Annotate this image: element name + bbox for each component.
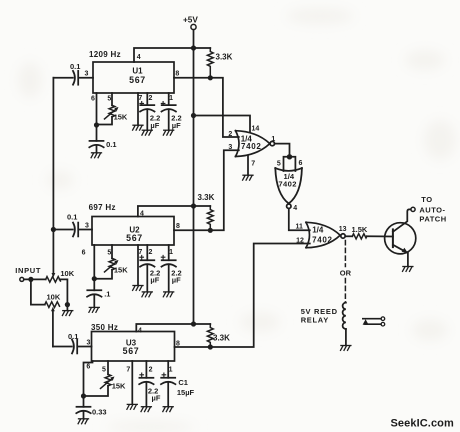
svg-text:2: 2 xyxy=(148,249,152,256)
wire trunk U1 input down to pots xyxy=(52,78,54,230)
transistor Q1 NPN xyxy=(385,209,416,266)
svg-text:2: 2 xyxy=(149,366,153,373)
svg-text:µF: µF xyxy=(172,121,181,130)
IC U2 567 xyxy=(89,203,174,245)
ground U2 pin2 cap xyxy=(142,292,152,297)
svg-text:8: 8 xyxy=(176,340,180,347)
node input junction xyxy=(28,277,33,282)
svg-text:6: 6 xyxy=(298,160,302,167)
svg-text:15K: 15K xyxy=(112,382,126,391)
node U2 pin6 junction xyxy=(92,276,97,281)
svg-text:5: 5 xyxy=(102,366,106,373)
svg-text:10K: 10K xyxy=(47,293,61,302)
wire gate1 output pin1 to gate2 inputs xyxy=(271,136,289,157)
svg-text:8: 8 xyxy=(175,70,179,77)
wire U1 pin8 row to gate input 2 xyxy=(174,78,239,137)
ground U2 pin7 xyxy=(133,286,143,291)
op-amp U4a NOR gate 1/4 7402 xyxy=(236,131,275,157)
IC U3 567 xyxy=(91,323,175,361)
wire input down to pot2 xyxy=(31,279,45,304)
ground relay coil xyxy=(341,346,351,351)
svg-text:350 Hz: 350 Hz xyxy=(91,323,118,332)
+5V supply terminal xyxy=(183,16,198,30)
op-amp U4b NOR gate 1/4 7402 (vertical) xyxy=(275,168,302,212)
wire U1 pin6 xyxy=(96,93,98,125)
capacitor 0.1 (U1 input coupling) xyxy=(70,62,80,85)
svg-text:1209 Hz: 1209 Hz xyxy=(89,50,121,59)
wire U3 pin6 xyxy=(84,361,93,396)
svg-text:0.1: 0.1 xyxy=(68,332,78,341)
wire base xyxy=(367,235,393,237)
wire U2 pin8 row to gate input 3 xyxy=(174,150,239,230)
ground U1 pin7 xyxy=(133,125,143,130)
svg-text:567: 567 xyxy=(126,233,143,243)
node rail-U3 row xyxy=(191,321,196,326)
capacitor 0.33 (U3 pin6) xyxy=(76,396,106,419)
wire U1 pin7 xyxy=(137,93,139,125)
node rail-U2 row xyxy=(191,203,196,208)
wire 7402 pin14 power xyxy=(194,116,260,133)
svg-text:12: 12 xyxy=(296,237,304,244)
ground U1 pin2 cap xyxy=(142,130,152,135)
svg-text:AUTO-: AUTO- xyxy=(419,205,445,214)
svg-text:4: 4 xyxy=(293,205,297,212)
svg-text:0.1: 0.1 xyxy=(70,62,80,71)
svg-text:15K: 15K xyxy=(114,112,128,121)
svg-text:5: 5 xyxy=(107,96,111,103)
svg-text:7402: 7402 xyxy=(241,142,262,151)
wire pot1 right to pot2 right xyxy=(60,279,68,304)
svg-text:3.3K: 3.3K xyxy=(213,333,230,342)
potentiometer 15K (U2 pin5) xyxy=(94,245,128,279)
svg-text:RELAY: RELAY xyxy=(301,315,329,324)
svg-text:0.1: 0.1 xyxy=(106,140,116,149)
svg-text:3.3K: 3.3K xyxy=(198,193,215,202)
wire U1 input pin3 xyxy=(53,77,73,79)
svg-text:C1: C1 xyxy=(178,378,188,387)
capacitor .1 (U2 pin6 bypass) xyxy=(87,279,110,308)
wire dashed OR branch xyxy=(340,241,352,303)
svg-text:6: 6 xyxy=(91,96,95,103)
svg-text:15K: 15K xyxy=(114,266,128,275)
svg-text:0.1: 0.1 xyxy=(67,213,77,222)
IC U1 567 xyxy=(89,50,174,93)
resistor 3.3K (U1 pull-up) xyxy=(207,48,232,76)
svg-text:0.33: 0.33 xyxy=(92,407,107,416)
reed switch contacts xyxy=(363,317,385,326)
potentiometer 15K (U3 pin5) xyxy=(84,361,127,396)
svg-text:1: 1 xyxy=(271,136,275,143)
ground pot network xyxy=(62,305,72,316)
wire U3 pin7 xyxy=(131,361,133,404)
svg-text:567: 567 xyxy=(123,346,140,356)
svg-text:7402: 7402 xyxy=(278,179,297,188)
wire U2 input pin3 xyxy=(53,229,73,231)
node collector terminal TO AUTO-PATCH xyxy=(411,195,447,223)
svg-text:3.3K: 3.3K xyxy=(216,52,233,61)
node rail-U1 row xyxy=(191,45,196,50)
svg-text:2: 2 xyxy=(148,95,152,102)
capacitor 2.2uF (U3 pin2) xyxy=(139,361,161,407)
wire U3 pin4 to +5V row xyxy=(136,324,210,332)
svg-text:PATCH: PATCH xyxy=(419,215,446,224)
svg-text:7: 7 xyxy=(251,161,255,168)
capacitor 2.2uF (U1 pin1) xyxy=(161,93,181,130)
svg-text:567: 567 xyxy=(129,75,146,85)
ground U3 pin2 cap xyxy=(141,407,151,412)
resistor 3.3K (U2 pull-up) xyxy=(198,193,215,231)
potentiometer 10K (upper) xyxy=(46,230,75,283)
wire gate2 input bar pins 5,6 xyxy=(277,157,303,171)
svg-text:13: 13 xyxy=(339,226,347,233)
svg-text:µF: µF xyxy=(150,276,159,285)
svg-text:µF: µF xyxy=(150,121,159,130)
ground U3 pin1 cap xyxy=(163,407,173,412)
ground 7402 pin7 xyxy=(243,175,253,180)
wire U1 pin4 to +5V row xyxy=(134,48,210,62)
wire U2 pin4 to +5V row xyxy=(138,206,210,217)
node trunk-U2 input junction xyxy=(51,227,56,232)
node 3.3K-U2 pin8 xyxy=(208,228,213,233)
svg-text:µF: µF xyxy=(152,394,161,403)
ground U2 pin1 cap xyxy=(163,292,173,297)
node INPUT terminal xyxy=(15,266,41,282)
capacitor 2.2uF (U2 pin1) xyxy=(161,245,181,292)
svg-text:OR: OR xyxy=(340,269,352,278)
capacitor C1 15uF (U3 pin1) xyxy=(161,361,195,407)
svg-text:3: 3 xyxy=(228,144,232,151)
wire input to pot1 xyxy=(24,278,46,280)
svg-text:SeekIC.com: SeekIC.com xyxy=(391,418,454,430)
svg-text:14: 14 xyxy=(252,126,260,133)
node U1 pin6 junction xyxy=(94,122,99,127)
capacitor 0.1 (U1 pin6 bypass) xyxy=(89,125,116,153)
svg-text:8: 8 xyxy=(176,223,180,230)
potentiometer 10K (lower) xyxy=(45,293,61,347)
capacitor 0.1 (U3 input coupling) xyxy=(68,332,78,353)
svg-text:5: 5 xyxy=(277,161,281,168)
svg-text:6: 6 xyxy=(86,363,90,370)
svg-text:1: 1 xyxy=(169,95,173,102)
node U3 pin6 junction xyxy=(81,393,86,398)
svg-text:µF: µF xyxy=(172,276,181,285)
node 3.3K-U1 pin8 xyxy=(208,75,213,80)
svg-text:.1: .1 xyxy=(104,289,110,298)
svg-text:5: 5 xyxy=(107,249,111,256)
capacitor 2.2uF (U2 pin2) xyxy=(140,245,160,292)
svg-text:1: 1 xyxy=(169,249,173,256)
ground U1 pin1 cap xyxy=(163,130,173,135)
svg-text:3: 3 xyxy=(85,223,89,230)
op-amp U4c NOR gate 1/4 7402 xyxy=(306,222,347,247)
wire gate2 output pin4 to gate3 pin11 xyxy=(289,209,310,231)
potentiometer 15K (U1 pin5) xyxy=(97,93,128,125)
ground U3 pin7 xyxy=(127,404,137,409)
svg-text:15µF: 15µF xyxy=(177,388,195,397)
wire U2 pin6 xyxy=(93,245,95,279)
svg-text:4: 4 xyxy=(137,54,141,61)
svg-text:697 Hz: 697 Hz xyxy=(89,203,116,212)
wire 7402 pin7 to ground xyxy=(248,156,255,175)
svg-text:6: 6 xyxy=(82,249,86,256)
svg-text:1.5K: 1.5K xyxy=(352,225,368,234)
svg-text:7: 7 xyxy=(126,367,130,374)
svg-text:4: 4 xyxy=(138,328,142,335)
svg-text:INPUT: INPUT xyxy=(15,266,41,275)
svg-text:3: 3 xyxy=(85,70,89,77)
resistor 3.3K (U3 pull-up) xyxy=(207,324,230,346)
svg-text:7402: 7402 xyxy=(312,235,333,244)
svg-text:11: 11 xyxy=(296,224,304,231)
svg-text:1: 1 xyxy=(169,366,173,373)
wire U3 pin8 row to gate input 12 xyxy=(175,244,310,348)
ground transistor emitter xyxy=(403,267,413,272)
svg-text:TO: TO xyxy=(421,195,432,204)
svg-text:10K: 10K xyxy=(60,269,74,278)
node gate2 input junction xyxy=(287,154,292,159)
ground U1 pin6 cap xyxy=(91,153,101,158)
svg-text:1/4: 1/4 xyxy=(312,225,324,234)
svg-text:4: 4 xyxy=(140,210,144,217)
capacitor 2.2uF (U1 pin2) xyxy=(140,93,160,130)
wire U2 pin7 xyxy=(137,245,139,285)
wire U3 input pin3 xyxy=(53,346,72,348)
node pot right junction xyxy=(65,302,70,307)
node 3.3K-U3 pin8 xyxy=(208,344,213,349)
ground U3 pin6 cap xyxy=(78,419,88,424)
svg-text:3: 3 xyxy=(87,339,91,346)
resistor 1.5K xyxy=(345,225,368,239)
svg-text:+5V: +5V xyxy=(183,16,198,25)
capacitor 0.1 (U2 input coupling) xyxy=(67,213,78,237)
wire +5V rail vertical xyxy=(193,30,195,324)
svg-text:2: 2 xyxy=(228,131,232,138)
inductor 5V reed relay coil xyxy=(301,303,346,346)
ground U2 pin6 cap xyxy=(89,307,99,312)
node rail-7402 pin14 row xyxy=(191,113,196,118)
